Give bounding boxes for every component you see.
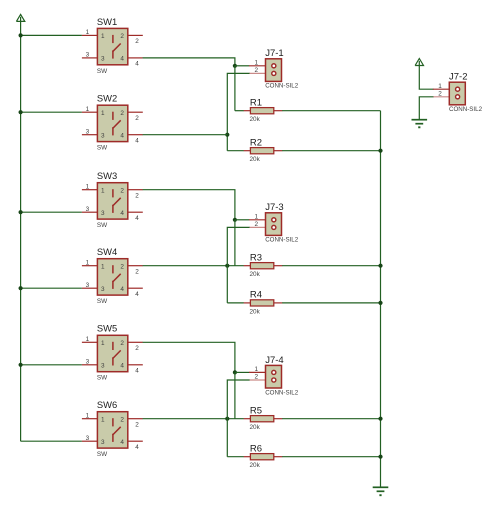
svg-text:2: 2 (120, 33, 124, 40)
svg-text:3: 3 (101, 363, 105, 370)
svg-text:4: 4 (135, 368, 139, 375)
junction J7-3 pin1 (233, 218, 237, 222)
wire SW5 pin2 to J7-4 pin1 (143, 342, 235, 372)
svg-text:R6: R6 (250, 444, 262, 455)
svg-text:SW: SW (97, 222, 108, 229)
switch SW3 (82, 170, 143, 229)
svg-text:4: 4 (120, 363, 124, 370)
wire SW6 pin2 to R5 (143, 418, 244, 420)
svg-text:4: 4 (135, 138, 139, 145)
svg-text:2: 2 (135, 193, 139, 200)
wire SW3 pin2 to J7-3 pin1 (143, 190, 235, 220)
svg-text:3: 3 (101, 286, 105, 293)
junction bus-R2 (378, 149, 382, 153)
resistor R2 20k (244, 138, 283, 164)
svg-text:2: 2 (135, 422, 139, 429)
svg-text:1: 1 (254, 59, 258, 66)
svg-text:1: 1 (101, 110, 105, 117)
svg-text:3: 3 (101, 56, 105, 63)
svg-text:SW2: SW2 (97, 93, 117, 104)
wire vertical J7-4 pin1 to R5 line (234, 372, 236, 418)
svg-text:SW1: SW1 (97, 16, 117, 27)
svg-text:CONN-SIL2: CONN-SIL2 (449, 106, 483, 113)
wire SW4 pin2 to R3 (143, 265, 244, 267)
wire J7-2 pin2 to ground (419, 97, 434, 120)
ground (bottom) (373, 487, 389, 495)
svg-text:R1: R1 (250, 98, 262, 109)
junction bus-SW5 (19, 363, 23, 367)
resistor R6 20k (244, 444, 283, 470)
svg-text:1: 1 (101, 188, 105, 195)
resistor R1 20k (244, 98, 283, 124)
switch SW5 (82, 323, 143, 382)
wire R3 right to bus (282, 265, 381, 267)
svg-text:R3: R3 (250, 253, 262, 264)
wire R4 left (227, 302, 244, 304)
junction bus-SW2 (19, 110, 23, 114)
svg-text:4: 4 (120, 210, 124, 217)
power symbol VCC (top left) (16, 14, 24, 22)
svg-text:2: 2 (254, 221, 258, 228)
svg-text:1: 1 (101, 264, 105, 271)
svg-text:R5: R5 (250, 406, 262, 417)
junction bus-SW4 (19, 286, 23, 290)
svg-text:2: 2 (135, 115, 139, 122)
svg-text:3: 3 (101, 439, 105, 446)
wire R6 left (227, 456, 244, 458)
wire R2 right to bus (282, 150, 381, 152)
wire left vertical bus (20, 21, 22, 441)
wire SW1 pin4 to J7-1 pin1 (143, 58, 235, 66)
switch SW6 (82, 399, 143, 458)
svg-text:1: 1 (101, 33, 105, 40)
svg-text:1: 1 (86, 29, 90, 36)
svg-text:CONN-SIL2: CONN-SIL2 (265, 237, 299, 244)
ground (J7-2) (412, 120, 428, 128)
wire R5 right to bus (282, 418, 381, 420)
wire bus to SW6 (21, 440, 82, 442)
svg-text:20k: 20k (250, 462, 261, 469)
wire bus to SW5 (21, 364, 82, 366)
svg-text:2: 2 (120, 264, 124, 271)
svg-text:4: 4 (120, 56, 124, 63)
svg-text:SW: SW (97, 145, 108, 152)
junction R3 line (225, 264, 229, 268)
svg-text:3: 3 (101, 210, 105, 217)
svg-text:SW6: SW6 (97, 399, 117, 410)
switch SW4 (82, 246, 143, 305)
wire R4 right to bus (282, 302, 381, 304)
svg-text:4: 4 (135, 61, 139, 68)
svg-text:2: 2 (120, 188, 124, 195)
svg-text:CONN-SIL2: CONN-SIL2 (265, 389, 299, 396)
svg-text:4: 4 (120, 286, 124, 293)
svg-text:SW: SW (97, 298, 108, 305)
svg-text:R4: R4 (250, 290, 262, 301)
power symbol VCC (right) (415, 59, 423, 67)
junction R5 line (225, 417, 229, 421)
svg-text:4: 4 (120, 133, 124, 140)
svg-text:R2: R2 (250, 138, 262, 149)
svg-text:SW: SW (97, 68, 108, 75)
svg-text:1: 1 (86, 412, 90, 419)
svg-text:CONN-SIL2: CONN-SIL2 (265, 83, 299, 90)
svg-text:SW: SW (97, 451, 108, 458)
svg-text:2: 2 (135, 269, 139, 276)
wire R1 left (235, 110, 244, 112)
svg-text:J7-1: J7-1 (265, 48, 283, 59)
wire power to J7-2 pin1 (419, 66, 433, 90)
svg-text:1: 1 (86, 106, 90, 113)
wire R6 right to bus (282, 456, 381, 458)
svg-text:2: 2 (135, 345, 139, 352)
svg-text:SW3: SW3 (97, 170, 117, 181)
svg-text:4: 4 (135, 215, 139, 222)
svg-text:20k: 20k (250, 116, 261, 123)
svg-text:4: 4 (135, 444, 139, 451)
svg-text:20k: 20k (250, 271, 261, 278)
wire J7-4 pin1 horizontal (235, 371, 250, 373)
svg-text:20k: 20k (250, 424, 261, 431)
wire bus to SW4 (21, 287, 82, 289)
wire J7-3 pin1 horizontal (235, 219, 250, 221)
switch SW1 (82, 16, 143, 75)
svg-text:2: 2 (438, 90, 442, 97)
wire R1 right to bus (282, 110, 381, 112)
svg-text:20k: 20k (250, 156, 261, 163)
svg-text:SW: SW (97, 375, 108, 382)
svg-text:4: 4 (135, 291, 139, 298)
svg-text:1: 1 (254, 213, 258, 220)
svg-text:1: 1 (254, 366, 258, 373)
resistor R5 20k (244, 406, 283, 432)
switch SW2 (82, 93, 143, 152)
junction bus-R3 (378, 264, 382, 268)
wire J7-1 pin2 to R2 (227, 73, 250, 150)
junction bus-R6 (378, 455, 382, 459)
svg-text:SW5: SW5 (97, 323, 117, 334)
svg-text:3: 3 (101, 133, 105, 140)
wire bus to SW2 (21, 111, 82, 113)
wire R2 left (227, 150, 244, 152)
connector J7-4 (249, 355, 299, 397)
svg-text:1: 1 (86, 336, 90, 343)
svg-text:1: 1 (86, 183, 90, 190)
junction bus-SW1 (19, 33, 23, 37)
svg-text:1: 1 (101, 340, 105, 347)
connector J7-3 (249, 202, 299, 244)
junction bus-R5 (378, 417, 382, 421)
wire right vertical bus (380, 111, 382, 488)
resistor R3 20k (244, 253, 283, 279)
svg-text:2: 2 (120, 110, 124, 117)
junction bus-SW3 (19, 210, 23, 214)
svg-text:2: 2 (254, 374, 258, 381)
svg-text:20k: 20k (250, 308, 261, 315)
svg-text:J7-3: J7-3 (265, 202, 283, 213)
junction bus-R4 (378, 301, 382, 305)
svg-text:1: 1 (101, 417, 105, 424)
svg-text:3: 3 (86, 52, 90, 59)
wire J7-3 pin2 to R4 (227, 227, 250, 303)
svg-text:J7-4: J7-4 (265, 355, 283, 366)
svg-text:2: 2 (254, 67, 258, 74)
svg-text:2: 2 (120, 417, 124, 424)
connector J7-1 (249, 48, 299, 89)
wire SW2 pin4 to junction (143, 134, 228, 136)
svg-text:3: 3 (86, 282, 90, 289)
svg-text:J7-2: J7-2 (449, 72, 467, 83)
junction J7-1 pin1 (233, 64, 237, 68)
svg-text:1: 1 (438, 83, 442, 90)
wire vertical J7-3 pin1 to R3 line (234, 220, 236, 266)
svg-text:3: 3 (86, 359, 90, 366)
svg-text:4: 4 (120, 439, 124, 446)
svg-text:2: 2 (120, 340, 124, 347)
svg-text:3: 3 (86, 128, 90, 135)
wire bus to SW1 (21, 34, 82, 36)
connector J7-2 (433, 72, 483, 114)
wire bus to SW3 (21, 211, 82, 213)
junction SW2 pin4 (225, 133, 229, 137)
svg-text:SW4: SW4 (97, 246, 117, 257)
wire J7-4 pin2 to R6 (227, 380, 250, 457)
svg-text:2: 2 (135, 38, 139, 45)
wire J7-1 pin1 horizontal (235, 65, 250, 67)
junction J7-4 pin1 (233, 370, 237, 374)
svg-text:3: 3 (86, 206, 90, 213)
wire vertical J7-1 pin1 to R1 (234, 66, 236, 111)
resistor R4 20k (244, 290, 283, 316)
svg-text:3: 3 (86, 435, 90, 442)
svg-text:1: 1 (86, 259, 90, 266)
